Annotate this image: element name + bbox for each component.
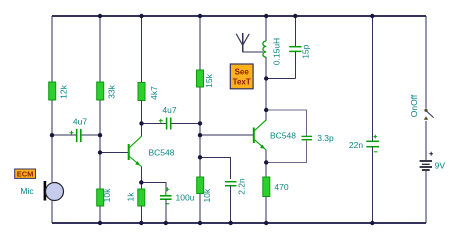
wire 10k to ground rail	[199, 194, 201, 224]
svg-text:BC548: BC548	[270, 130, 296, 140]
svg-text:9V: 9V	[435, 160, 446, 170]
resistor R3 10k	[97, 188, 112, 206]
node top rail junctions	[98, 14, 375, 18]
wire Q2 emitter to emitter node	[265, 150, 267, 162]
svg-text:0.15uH: 0.15uH	[271, 38, 281, 65]
node Q1 base divider junctions	[98, 133, 102, 155]
wire Q2 collector to collector node	[265, 110, 267, 120]
wire right column top (battery branch)	[425, 16, 427, 109]
wire bottom ground rail	[52, 222, 426, 224]
svg-text:ECM: ECM	[17, 169, 34, 178]
capacitor C4 2.2n	[225, 178, 246, 195]
wire 33k column top	[99, 16, 101, 82]
svg-text:33k: 33k	[106, 84, 116, 98]
wire tank bottom joining link	[266, 78, 295, 80]
wire 33k to base node	[99, 100, 101, 153]
wire 15p top lead	[294, 16, 296, 46]
wire battery to ground rail	[425, 171, 427, 223]
wire 2.2n to ground rail	[230, 186, 232, 223]
svg-text:4u7: 4u7	[162, 105, 176, 115]
wire 15p bottom lead	[294, 51, 296, 78]
svg-text:Mic: Mic	[20, 186, 34, 196]
svg-text:4u7: 4u7	[73, 117, 87, 127]
svg-text:OnOff: OnOff	[409, 94, 419, 117]
capacitor C1 4u7 input	[52, 117, 100, 143]
svg-text:2.2n: 2.2n	[236, 178, 246, 195]
resistor R1 12k	[49, 82, 69, 100]
resistor R2 33k	[97, 82, 117, 100]
svg-text:100u: 100u	[176, 192, 195, 202]
wire inductor top lead	[265, 16, 267, 41]
svg-text:15p: 15p	[301, 44, 311, 58]
resistor R6 15k	[197, 70, 214, 88]
svg-text:10k: 10k	[202, 188, 212, 202]
node Q2 base junctions	[198, 121, 202, 159]
svg-text:12k: 12k	[59, 84, 69, 98]
resistor R4 4k7	[138, 83, 159, 101]
wire 470 to ground rail	[265, 197, 267, 224]
wire base lead Q1	[100, 152, 128, 154]
microphone MIC1 ECM	[44, 181, 64, 201]
svg-text:22n: 22n	[349, 140, 363, 150]
wire Q1 emitter down to emitter node	[140, 167, 142, 183]
wire coupling node to Q2 base node	[199, 123, 201, 157]
wire microphone to ground rail	[51, 201, 53, 224]
svg-text:TexT: TexT	[233, 78, 251, 87]
wire top supply rail	[52, 15, 426, 17]
svg-text:3.3p: 3.3p	[317, 133, 334, 143]
wire antenna tap to coil	[243, 51, 263, 53]
wire collector node to Q1 collector	[141, 123, 143, 136]
resistor R7 10k	[197, 177, 213, 203]
capacitor C3 4u7 coupling	[142, 105, 201, 130]
svg-text:See: See	[235, 68, 250, 77]
wire 1k to ground rail	[140, 206, 142, 223]
wire 4k7 to collector node	[141, 101, 143, 124]
svg-text:1k: 1k	[125, 192, 135, 202]
transistor Q2 BC548	[254, 120, 296, 150]
wire Q2 base node to 2.2n	[200, 157, 231, 179]
label See TexT box	[230, 64, 253, 89]
node mic coupling junction	[50, 133, 54, 137]
svg-text:BC548: BC548	[149, 148, 175, 158]
switch SW1 OnOff	[409, 94, 434, 120]
wire emitter node to 470	[265, 162, 267, 177]
wire 22n column top	[371, 16, 373, 141]
transistor Q1 BC548	[129, 137, 175, 167]
node Q1 emitter junction	[139, 180, 143, 184]
wire emitter node to 1k	[140, 183, 142, 189]
svg-text:4k7: 4k7	[149, 86, 159, 100]
resistor R5 1k	[125, 189, 145, 206]
resistor R8 470	[263, 177, 289, 197]
wire inductor bottom lead	[265, 57, 267, 78]
capacitor C5 3.3p feedback	[266, 110, 334, 162]
wire 10k to ground rail	[99, 206, 101, 223]
svg-text:10k: 10k	[102, 188, 112, 202]
battery BT1 9V	[420, 152, 446, 171]
wire 22n to ground rail	[371, 147, 373, 223]
wire 4k7 column top	[141, 16, 143, 83]
node tank bottom junction	[264, 76, 268, 80]
label ECM box	[15, 169, 36, 178]
wire 15k column top	[199, 16, 201, 70]
wire Q2 base node down to 10k	[199, 157, 201, 177]
node Q2 collector junction	[264, 108, 268, 112]
wire emitter node to 100u	[141, 182, 166, 192]
wire base node down to 10k	[99, 153, 101, 190]
node Q1 collector junction	[139, 121, 143, 125]
capacitor C2 100u electrolytic	[160, 187, 195, 223]
capacitor C7 22n	[349, 135, 379, 152]
svg-text:470: 470	[274, 182, 288, 192]
wire 12k to mic node	[51, 100, 53, 135]
wire switch to battery	[425, 121, 427, 160]
wire tank column (collector node up to tank bottom)	[265, 79, 267, 111]
svg-text:15k: 15k	[204, 73, 214, 87]
node Q2 emitter junction	[264, 160, 268, 164]
capacitor C6 15p	[289, 44, 311, 58]
wire left column top (12k branch)	[51, 16, 53, 82]
wire 15k to coupling node	[199, 87, 201, 123]
wire base lead Q2	[200, 134, 253, 136]
inductor L1 0.15uH	[263, 38, 281, 65]
wire mic node down to microphone	[51, 135, 53, 182]
node ground rail junctions	[98, 221, 375, 225]
antenna ANT1	[236, 33, 249, 52]
